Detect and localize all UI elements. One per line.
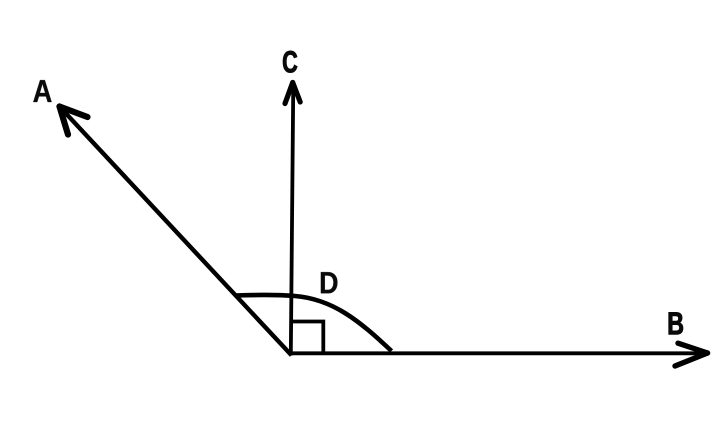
label A	[33, 80, 51, 102]
label C	[283, 51, 297, 73]
wire ray OC	[291, 82, 294, 356]
right-angle marker at vertex	[291, 322, 324, 354]
arrowhead B	[675, 343, 708, 366]
label B	[669, 312, 683, 334]
wire ray OB	[289, 351, 708, 355]
angle arc D	[236, 295, 392, 351]
arrowhead C	[285, 83, 300, 104]
arrowhead A	[60, 107, 88, 135]
label D	[321, 272, 338, 293]
wire ray OA	[59, 106, 292, 356]
